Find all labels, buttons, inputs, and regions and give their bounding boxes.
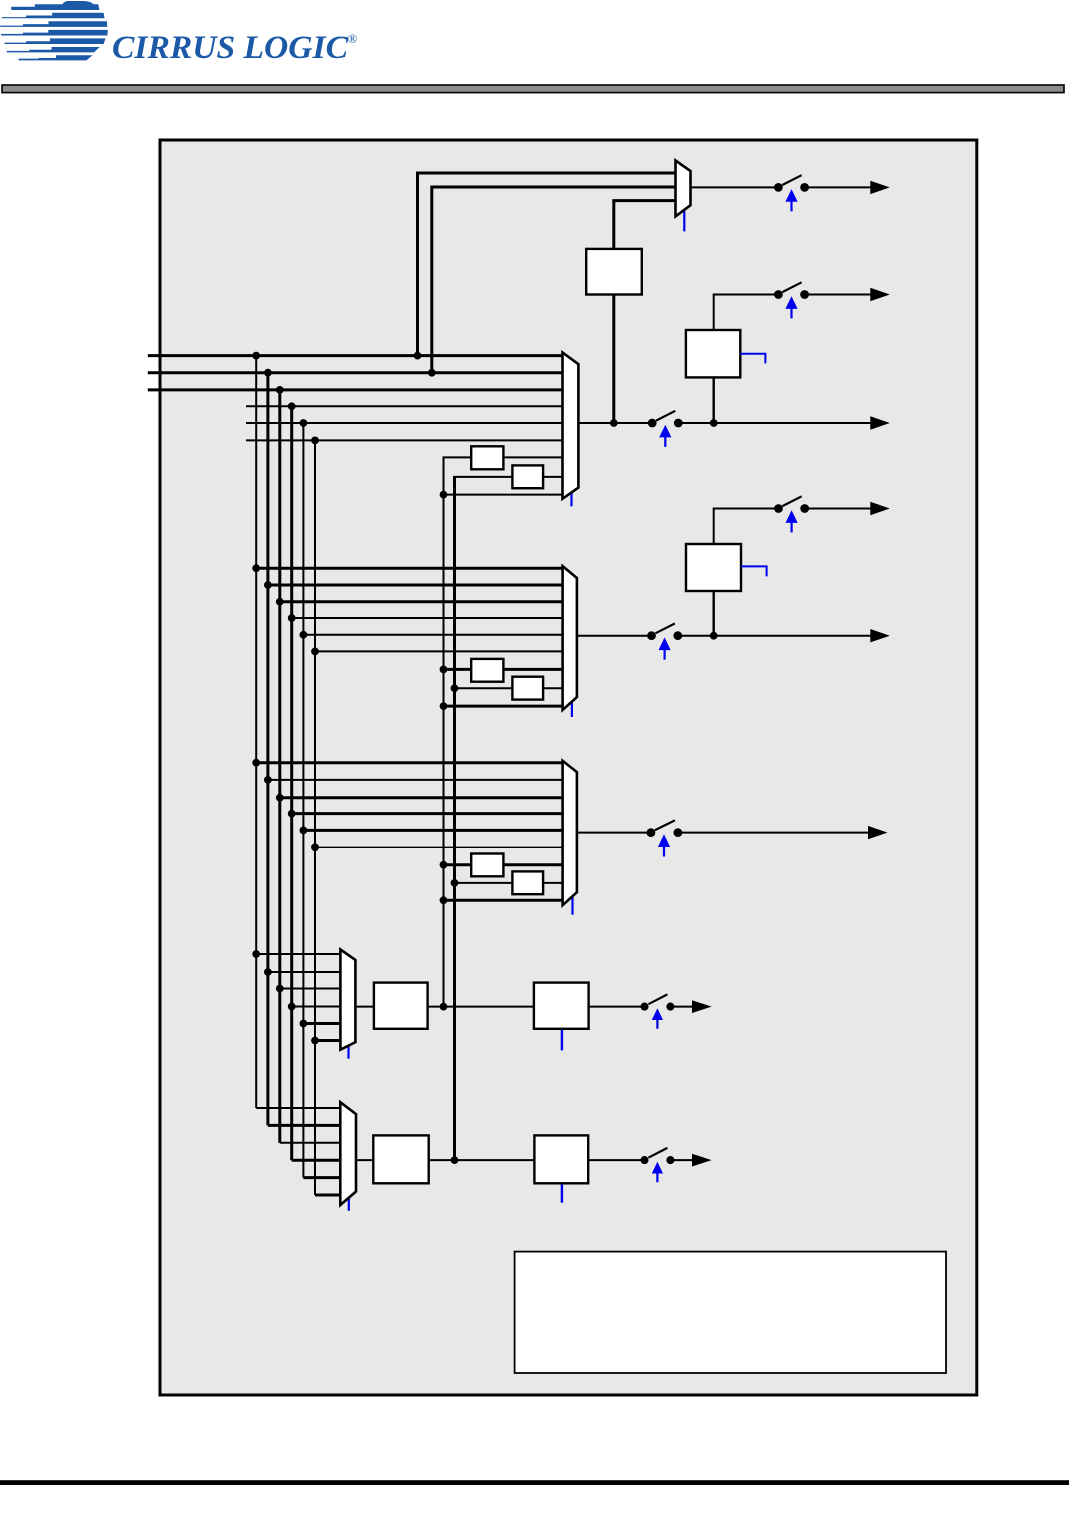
switch SW9 (640, 1148, 674, 1182)
junction node J33 at (454.5,688.2) (451, 684, 459, 692)
svg-text:CIRRUS LOGIC: CIRRUS LOGIC (112, 30, 349, 66)
wire mux U3 input row 3 (280, 796, 563, 799)
wire divider E3 out to mux U3 (543, 882, 563, 884)
block D2 divider (471, 659, 503, 682)
block G divider (534, 983, 589, 1029)
wire vertical A top corner to divider D1 (443, 456, 472, 458)
junction node J13 at (303.4,634.8) (300, 631, 308, 639)
block E2 divider (512, 677, 543, 700)
wire mux U0 input 3 from divider A (614, 201, 676, 249)
wire block F to block G (428, 1006, 534, 1008)
junction node J6 at (291.7,406.3) (288, 402, 296, 410)
wire mux U4 input row 5 (303, 1022, 340, 1025)
junction node J25 at (303.4,1023.5) (300, 1020, 308, 1028)
mux U3 select stub (571, 896, 573, 915)
block D3 divider (471, 854, 503, 877)
wire mux U0 output row 1 (691, 186, 776, 188)
wire mux U5 input row 3 (280, 1142, 341, 1144)
wire divider E2 out to mux U2 (543, 687, 563, 689)
wire mux U4 input row 2 (268, 971, 341, 973)
output arrow 2 (870, 288, 890, 301)
wire mux U2 input row 4 (292, 617, 563, 619)
wire clock input bus row 1 (148, 354, 563, 357)
mux U1 select stub (570, 493, 572, 507)
junction node J18 at (291.7,813.6) (288, 810, 296, 818)
wire bus vertical 2 (266, 373, 269, 1126)
wire mux U2 output row 5 (577, 635, 648, 637)
junction node J34 at (454.5,882.9) (451, 879, 459, 887)
wire clock input bus row 4 (246, 405, 563, 407)
wire mux U3 input row 9 (444, 899, 563, 902)
wire block C down to row5 junction (713, 591, 715, 636)
wire mux U3 input row 5 (303, 829, 562, 832)
mux U1 (563, 353, 579, 499)
block A divider (586, 249, 642, 295)
wire bus vertical 3 (278, 390, 281, 1143)
footer rule (0, 1480, 1069, 1485)
wire mux U3 input row 4 (292, 812, 563, 815)
wire mux U5 input row 1 (256, 1107, 340, 1109)
wire block C up-corner output row 4 (714, 509, 775, 545)
mux U5 (340, 1102, 356, 1205)
wire block B up-corner output row 2 (714, 295, 775, 331)
figure frame (160, 140, 977, 1395)
junction node J31 at (443.5,900.2) (440, 896, 448, 904)
block B divider (686, 330, 740, 377)
switch SW1 (774, 175, 809, 211)
junction node J37 at (713.7,423.0) (710, 419, 718, 427)
output arrow 1 (870, 181, 890, 194)
wire mux U5 input row 6 (315, 1194, 340, 1197)
wire mux U2 input row 9 (444, 705, 563, 708)
wire block B down to row3 junction (713, 377, 715, 423)
wire block H to block I (429, 1159, 535, 1161)
wire vertical B feed (453, 477, 456, 1160)
header rule bar (2, 85, 1064, 93)
wire to divider D2 (444, 668, 472, 671)
output arrow 5 (870, 629, 890, 642)
block D1 divider (471, 446, 503, 469)
junction node J3 at (267.9,372.7) (264, 369, 272, 377)
output arrow 7 (868, 826, 888, 839)
wire to divider D3 (444, 863, 472, 866)
junction node J2 at (417.5,355.6) (414, 352, 422, 360)
junction node J24 at (291.7,1006.5) (288, 1003, 296, 1011)
wire block I to switch row 9 (588, 1159, 641, 1161)
output arrow 9 (692, 1154, 712, 1167)
svg-text:®: ® (348, 31, 358, 46)
junction node J14 at (315.0,651.4) (311, 648, 319, 656)
switch SW5 (647, 624, 682, 660)
junction node J17 at (279.8,797.7) (276, 794, 284, 802)
wire clock input bus row 2 (148, 371, 563, 374)
wire mux U2 input row 1 (256, 567, 562, 570)
junction node J1 at (256.2,355.6) (252, 352, 260, 360)
junction node J38 at (713.7,635.7) (710, 632, 718, 640)
mux U5 select stub (348, 1198, 350, 1211)
wire mux U5 output to block H (356, 1159, 373, 1161)
mux U0 (676, 161, 691, 217)
wire L1 bus row1 up to mux U0 input 1 (418, 173, 676, 356)
wire bus vertical 1 (255, 356, 257, 1108)
switch SW3 (648, 411, 683, 447)
wire mux U2 input row 2 (268, 584, 563, 587)
switch SW7 (647, 820, 683, 856)
wire divider E1 out to mux U1 (543, 476, 562, 478)
Cirrus Logic logo sphere (0, 1, 108, 60)
junction node J28 at (443.5,669.4) (440, 666, 448, 674)
junction node J7 at (303.4,423.0) (300, 419, 308, 427)
wire mux U1 input row 9 (444, 494, 563, 496)
block C control notch (741, 566, 767, 576)
junction node J8 at (315.0,440.4) (311, 437, 319, 445)
block C divider (686, 544, 741, 591)
wire block G to switch row 8 (589, 1006, 641, 1008)
junction node J9 at (256.2,568.2) (252, 564, 260, 572)
junction node J10 at (267.9,585.0) (264, 581, 272, 589)
wire bus vertical 5 (302, 423, 304, 1178)
junction node J4 at (431.8,372.7) (428, 369, 436, 377)
wire mux U3 input row 1 (256, 761, 562, 764)
wire L2 bus row2 up to mux U0 input 2 (432, 187, 676, 373)
block G control stub (561, 1029, 563, 1051)
mux U4 select stub (347, 1046, 349, 1059)
wire mux U2 input row 3 (280, 600, 563, 603)
junction node J36 at (613.8,423.0) (610, 419, 618, 427)
mux U0 select stub (683, 210, 685, 232)
wire to divider E3 (455, 882, 513, 884)
wire to divider E2 (455, 687, 513, 689)
mux U2 select stub (571, 701, 573, 717)
wire divider A output down to row3 junction (612, 295, 615, 424)
junction node J16 at (267.9,779.9) (264, 776, 272, 784)
block I control stub (561, 1183, 563, 1202)
junction node J26 at (315.0,1040.5) (311, 1037, 319, 1045)
junction node J23 at (279.8,988.5) (276, 985, 284, 993)
wire mux U3 input row 2 (268, 779, 563, 781)
wire mux U2 input row 5 (303, 634, 562, 636)
wire mux U2 input row 6 (315, 650, 563, 652)
wire bus vertical 4 (290, 406, 293, 1160)
block I divider (534, 1135, 588, 1183)
junction node J32 at (443.5,1006.6) (440, 1003, 448, 1011)
wire mux U3 input row 6 (315, 846, 563, 848)
switch SW4 (774, 496, 809, 532)
junction node J30 at (443.5,864.7) (440, 861, 448, 869)
wire vertical A feed (443, 457, 445, 1006)
junction node J20 at (315.0,847.3) (311, 843, 319, 851)
wire mux U4 input row 6 (315, 1039, 340, 1042)
wire mux U4 output to block F (355, 1006, 374, 1008)
wire mux U5 input row 4 (292, 1159, 341, 1162)
wire mux U5 input row 5 (303, 1176, 340, 1179)
wire mux U3 output row 7 (577, 832, 648, 834)
junction node J15 at (256.2,762.7) (252, 759, 260, 767)
junction node J27 at (443.5,494.6) (440, 491, 448, 499)
switch SW2 (774, 282, 809, 318)
block F divider (374, 983, 428, 1029)
block H divider (373, 1135, 428, 1183)
wire mux U5 input row 2 (268, 1124, 340, 1127)
note box (515, 1252, 946, 1373)
wire mux U1 output row 3 (578, 422, 648, 424)
wire vertical B top corner to divider E1 (453, 476, 512, 478)
block B control notch (740, 354, 765, 364)
wire clock input bus row 3 (148, 388, 563, 391)
wire mux U4 input row 4 (292, 1006, 341, 1008)
mux U2 (563, 566, 577, 710)
mux U3 (563, 761, 577, 905)
junction node J5 at (279.8,389.9) (276, 386, 284, 394)
wire divider D2 out to mux U2 (503, 668, 562, 671)
output arrow 8 (692, 1000, 712, 1013)
mux U4 (340, 950, 355, 1050)
output arrow 4 (870, 502, 890, 515)
wire clock input bus row 6 (246, 439, 563, 441)
junction node J21 at (256.2,954.0) (252, 950, 260, 958)
junction node J22 at (267.9,972.0) (264, 968, 272, 976)
junction node J29 at (443.5,706.1) (440, 702, 448, 710)
junction node J35 at (454.5,1160.1) (451, 1156, 459, 1164)
switch SW8 (640, 994, 674, 1028)
junction node J19 at (303.4,830.4) (300, 827, 308, 835)
wire mux U4 input row 3 (280, 988, 341, 990)
output arrow 3 (870, 416, 890, 429)
wire divider D3 out to mux U3 (503, 863, 562, 866)
wire divider D1 out to mux U1 (503, 456, 562, 458)
junction node J11 at (279.8,601.8) (276, 598, 284, 606)
block E3 divider (512, 871, 543, 894)
junction node J12 at (291.7,618.0) (288, 614, 296, 622)
wire clock input bus row 5 (246, 422, 563, 424)
wire bus vertical 6 (314, 440, 316, 1195)
block E1 divider (512, 465, 543, 488)
wire mux U4 input row 1 (256, 953, 340, 955)
